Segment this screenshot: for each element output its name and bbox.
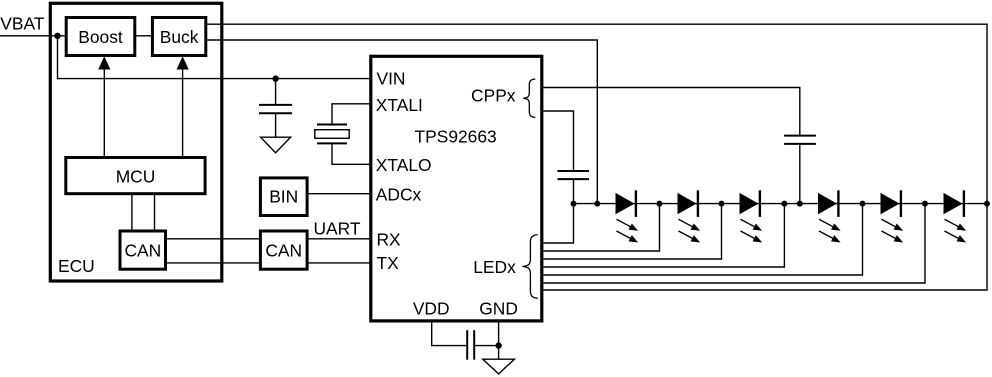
wire LED1 sense [542,204,573,243]
wire LED2 sense [542,204,659,251]
svg-text:ECU: ECU [58,256,95,276]
node VIN capacitor junction [272,75,278,81]
ground GND2 [483,359,515,374]
svg-text:LEDx: LEDx [473,257,516,277]
svg-text:TX: TX [377,253,400,273]
node LED string junction 3 [657,201,663,207]
svg-text:XTALI: XTALI [376,95,423,115]
IC U1 TPS92663 box [371,56,542,321]
node LED string junction 1 [571,201,577,207]
wire LED7 sense [542,204,987,290]
capacitor C1 input [259,79,292,138]
MCU block [66,158,205,194]
wire LED4 sense [542,204,784,267]
wire VBAT input [0,35,66,37]
node LED string junction 8 [922,201,928,207]
wire TX [307,262,371,264]
ground GND1 [261,137,291,153]
svg-text:VBAT: VBAT [0,13,45,33]
Boost block [66,18,135,56]
wire Buck output bottom to LED string start [206,40,597,204]
wire VDD [432,321,468,346]
BIN block [260,178,307,216]
CAN block inside ECU [120,231,166,269]
wire CAN to CAN transceiver lower [166,262,261,264]
wire MCU to CAN right [154,194,156,231]
svg-text:BIN: BIN [269,187,298,207]
svg-text:VDD: VDD [413,299,450,319]
svg-text:CAN: CAN [265,241,302,261]
node LED string junction 2 [594,201,600,207]
wire CAN to CAN transceiver upper [166,238,261,240]
svg-text:CAN: CAN [124,241,161,261]
svg-text:Boost: Boost [78,27,123,47]
node LED string junction 6 [797,201,803,207]
wire LED3 sense [542,204,721,259]
svg-text:GND: GND [479,299,518,319]
wire MCU to CAN left [131,194,133,231]
wire MCU to Buck arrow [177,56,189,157]
brace LEDx [522,235,537,299]
svg-text:TPS92663: TPS92663 [415,126,497,146]
svg-text:ADCx: ADCx [376,184,422,204]
wire GND pin [498,321,500,359]
capacitor C3 [784,136,816,204]
node VBAT junction [54,33,60,39]
LED D4 [817,190,842,245]
wire Boost-Buck [135,35,153,37]
wire CPP2 [542,111,573,171]
LED D2 [677,190,702,245]
LED D6 [943,190,968,245]
wire LED5 sense [542,204,862,275]
wire MCU to Boost arrow [98,56,110,157]
wire VBAT to VIN [58,36,372,79]
wire Buck output top to LED string end [206,24,987,203]
crystal Y1 [315,104,372,165]
brace CPPx [523,79,535,118]
wire RX [307,238,371,240]
svg-text:VIN: VIN [377,68,406,88]
svg-text:Buck: Buck [160,27,199,47]
wire BIN to ADCx [307,193,371,195]
LED D1 [615,190,640,245]
Buck block [152,18,205,56]
CAN transceiver block [260,231,307,269]
capacitor C4 [467,330,498,360]
node LED string junction 4 [719,201,725,207]
LED D3 [739,190,764,245]
svg-text:MCU: MCU [116,166,156,186]
node LED string junction 7 [860,201,866,207]
capacitor C2 [558,171,590,204]
node GND junction [495,342,501,348]
wire LED6 sense [542,204,925,283]
ECU box [50,3,222,281]
LED D5 [880,190,905,245]
wire CPP1 [542,88,800,136]
svg-text:UART: UART [313,219,360,239]
node LED string junction 9 [984,201,990,207]
node LED string junction 5 [781,201,787,207]
svg-text:CPPx: CPPx [471,86,516,106]
wire LED string bus [574,203,988,205]
svg-text:XTALO: XTALO [376,155,432,175]
svg-text:RX: RX [377,229,402,249]
